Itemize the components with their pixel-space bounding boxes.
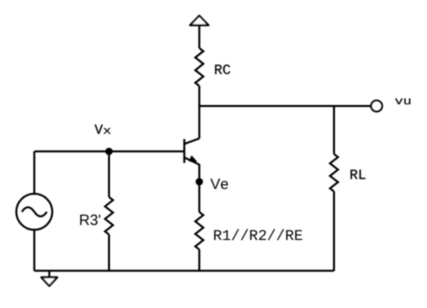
resistor RL xyxy=(330,154,338,192)
wire RL top lead xyxy=(333,106,335,154)
label R3' xyxy=(80,215,100,226)
resistor RC xyxy=(195,48,203,86)
ac source xyxy=(16,194,52,230)
wire base from source to transistor xyxy=(34,150,184,152)
node Ve xyxy=(196,178,203,185)
output terminal vu xyxy=(371,101,382,112)
wire VCC stem xyxy=(198,25,200,48)
wire RL bottom lead xyxy=(333,192,335,271)
transistor Q1 xyxy=(184,138,199,164)
power supply arrow xyxy=(190,16,209,26)
wire source top lead xyxy=(33,151,35,193)
label vu xyxy=(395,99,410,105)
label RL xyxy=(351,170,366,179)
wire source bottom lead xyxy=(33,230,35,271)
resistor R1//R2//RE xyxy=(195,212,203,250)
resistor R3' xyxy=(105,151,113,270)
node Vx xyxy=(105,148,112,155)
wire collector rail to output xyxy=(199,105,371,107)
label R1//R2//RE xyxy=(214,229,302,240)
wire bottom rail xyxy=(34,270,334,272)
label Ve xyxy=(210,179,228,189)
wire emitter to R1//R2//RE xyxy=(198,164,200,212)
label Vx xyxy=(95,125,111,134)
label RC xyxy=(215,65,230,75)
wire R1//R2//RE bottom lead xyxy=(198,250,200,271)
ground xyxy=(41,271,57,286)
wire RC to collector xyxy=(198,86,200,139)
